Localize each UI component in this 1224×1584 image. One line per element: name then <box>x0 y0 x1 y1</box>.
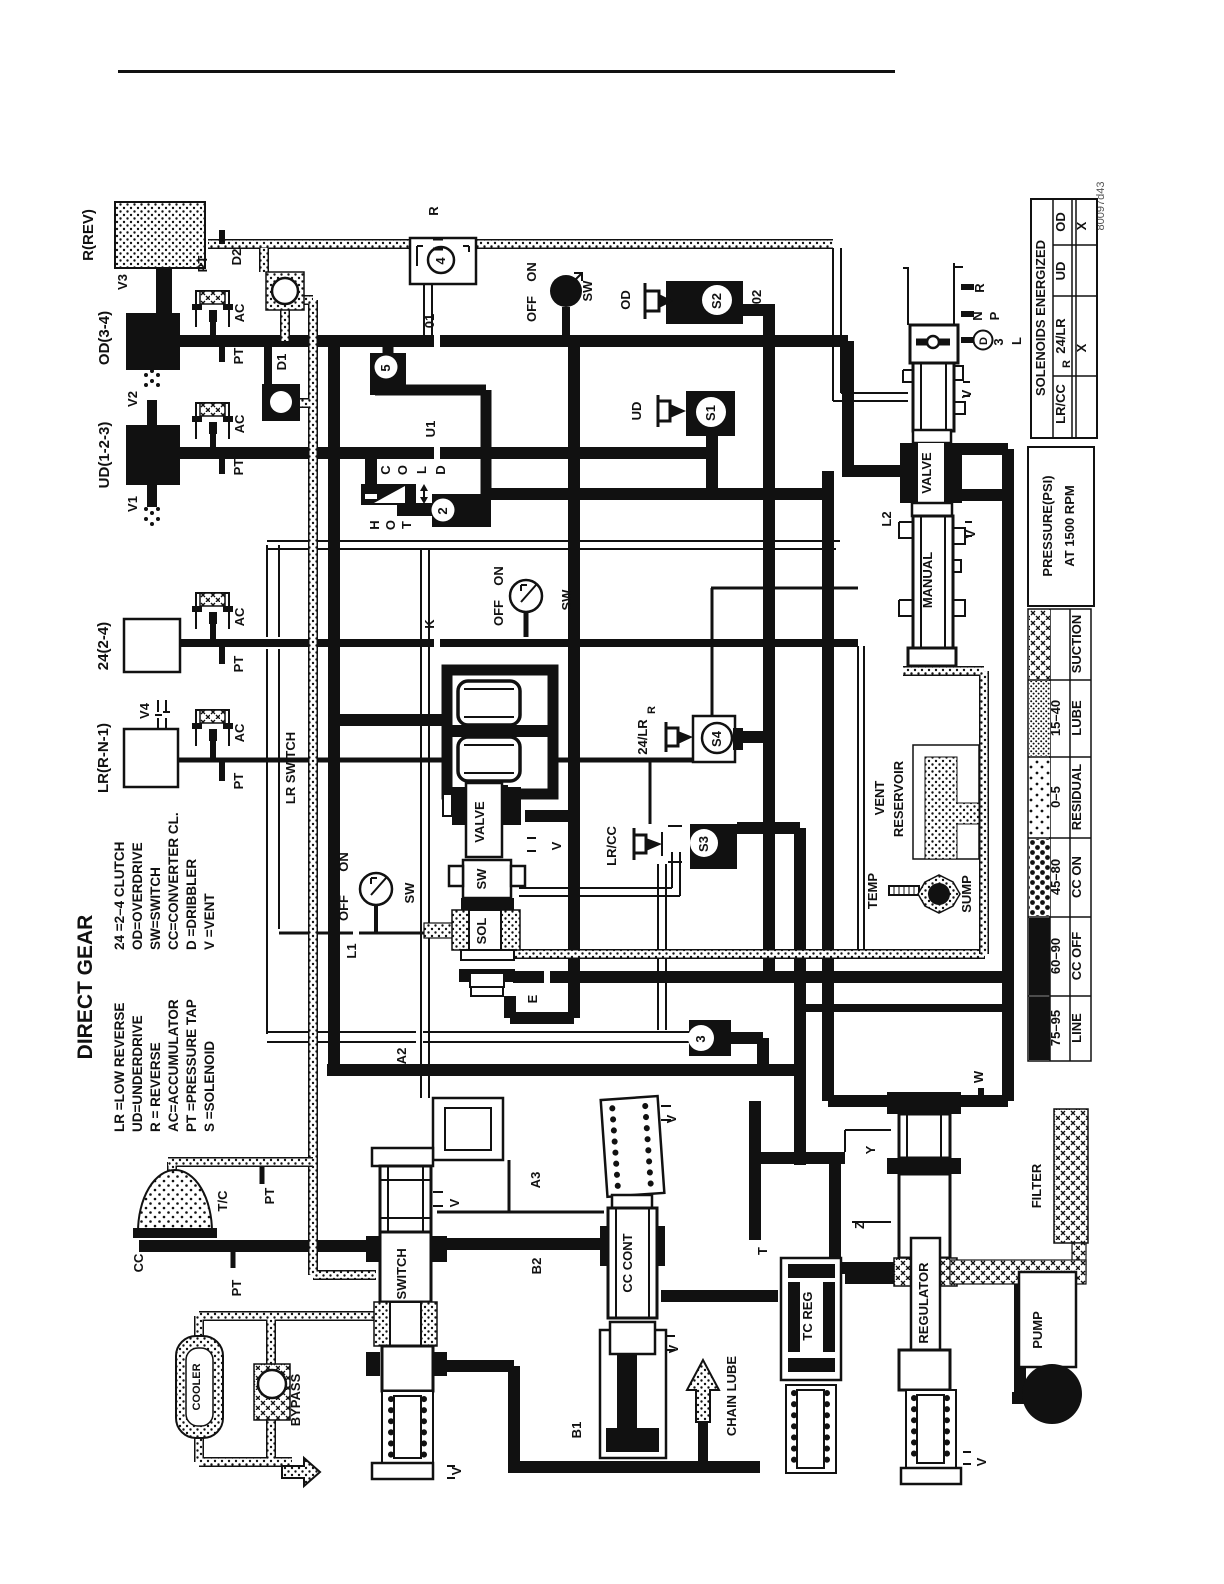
valve assembly bulb housing <box>447 670 553 794</box>
svg-text:N: N <box>970 311 985 320</box>
wire S4 feed <box>711 588 858 718</box>
wire cross link y1008 <box>804 1004 1008 1012</box>
gear indicator P R N D 3 L <box>961 287 974 340</box>
pressure tap PT (LR) <box>219 760 225 781</box>
wire pair below K <box>267 649 279 1034</box>
valve assembly bottom piston <box>459 969 515 982</box>
svg-text:R: R <box>426 206 441 216</box>
TC reg spring <box>786 1385 836 1473</box>
svg-text:UD(1-2-3): UD(1-2-3) <box>96 422 113 489</box>
regulator bottom cap <box>901 1468 961 1484</box>
pressure tap PT (OD) <box>219 341 225 362</box>
svg-text:MANUAL: MANUAL <box>920 552 935 608</box>
svg-text:AC: AC <box>232 303 247 322</box>
wire S3 funnel feed <box>649 762 652 824</box>
CC cont top spring box <box>601 1096 665 1197</box>
svg-text:SOLENOIDS ENERGIZED: SOLENOIDS ENERGIZED <box>1033 240 1048 396</box>
reservoir fill <box>925 757 979 859</box>
valve assembly mid band <box>452 725 548 737</box>
svg-text:PT: PT <box>231 348 246 365</box>
svg-text:AT 1500 RPM: AT 1500 RPM <box>1062 485 1077 566</box>
svg-text:CC ON: CC ON <box>1069 856 1084 898</box>
node U1 <box>434 445 440 461</box>
wire S2 box to riser <box>743 304 775 316</box>
thermal valve COLD/HOT <box>361 484 416 505</box>
CC switch bottom cap <box>372 1463 433 1479</box>
svg-text:D =DRIBBLER: D =DRIBBLER <box>184 859 199 950</box>
wire valve right to main riser y449 <box>962 449 1008 495</box>
valve assembly bulb 1 <box>458 681 520 725</box>
bypass <box>254 1364 290 1420</box>
wire pump riser <box>1012 1271 1040 1398</box>
svg-text:PT: PT <box>262 1188 277 1205</box>
svg-text:L: L <box>1009 337 1024 345</box>
svg-text:PT: PT <box>231 656 246 673</box>
accumulator AC (LR) <box>192 710 233 760</box>
pressure tap PT (CC line) <box>231 1248 236 1268</box>
svg-text:LINE: LINE <box>1069 1013 1084 1043</box>
svg-text:S =SOLENOID: S =SOLENOID <box>202 1041 217 1132</box>
table PRESSURE(PSI) AT 1500 RPM <box>1028 447 1094 606</box>
wire CC CONT right to TC REG <box>661 1290 778 1302</box>
wire x334 riser to valve assembly upper left <box>334 714 452 726</box>
wire T feed to TC REG <box>749 1101 761 1240</box>
svg-text:FILTER: FILTER <box>1029 1163 1044 1208</box>
node K <box>434 636 440 650</box>
svg-text:S1: S1 <box>703 405 718 421</box>
wire bottom loop <box>508 1366 760 1467</box>
svg-text:O: O <box>395 465 410 475</box>
wire W line upper <box>327 1064 804 1076</box>
svg-text:02: 02 <box>749 290 764 304</box>
wire OD clutch line <box>180 335 848 347</box>
svg-text:D: D <box>978 337 990 345</box>
svg-text:CHAIN LUBE: CHAIN LUBE <box>724 1356 739 1436</box>
svg-text:AC=ACCUMULATOR: AC=ACCUMULATOR <box>166 999 181 1132</box>
svg-text:AC: AC <box>232 414 247 433</box>
svg-text:PT: PT <box>229 1280 244 1297</box>
dribbler D2 <box>266 272 304 310</box>
svg-text:DIRECT GEAR: DIRECT GEAR <box>74 915 97 1060</box>
svg-text:PT =PRESSURE TAP: PT =PRESSURE TAP <box>184 999 199 1132</box>
svg-text:A3: A3 <box>528 1172 543 1189</box>
svg-text:B2: B2 <box>529 1258 544 1275</box>
filter <box>1054 1109 1088 1243</box>
node W <box>978 1088 984 1096</box>
wire CC line mid (B2) <box>437 1238 604 1250</box>
svg-text:OD: OD <box>618 290 633 310</box>
svg-text:D1: D1 <box>274 354 289 371</box>
svg-text:VENT: VENT <box>872 781 887 816</box>
wire Y thin marks <box>845 1130 891 1152</box>
wire funnel drain pair to A2 <box>658 864 666 1030</box>
svg-text:60–90: 60–90 <box>1048 938 1063 974</box>
switch SW (L1, open) <box>374 906 378 933</box>
svg-text:V1: V1 <box>125 496 140 512</box>
accumulator AC (UD) <box>192 403 233 453</box>
wire regulator out to pump line <box>845 1272 1019 1284</box>
svg-text:V4: V4 <box>137 702 152 719</box>
wire W line lower right <box>828 1095 1008 1107</box>
check valve 4 <box>410 238 476 284</box>
regulator hatch pockets <box>894 1258 912 1286</box>
wire x581 riser from OD line down into assembly <box>510 341 574 1018</box>
svg-text:K: K <box>422 619 437 629</box>
svg-text:V: V <box>449 1466 464 1475</box>
svg-text:LR SWITCH: LR SWITCH <box>283 732 298 804</box>
wire L1 line <box>279 932 454 935</box>
svg-text:V: V <box>974 1457 989 1466</box>
svg-text:COOLER: COOLER <box>191 1363 203 1410</box>
svg-text:VALVE: VALVE <box>919 452 934 494</box>
manual valve MANUAL spool <box>913 516 953 648</box>
svg-text:O: O <box>383 520 398 530</box>
svg-text:CC OFF: CC OFF <box>1069 932 1084 980</box>
node E <box>544 969 550 985</box>
vent V (manual) <box>965 522 972 536</box>
svg-text:V2: V2 <box>125 391 140 407</box>
wire D1 stub <box>264 341 272 384</box>
svg-text:T: T <box>755 1247 770 1255</box>
svg-text:E: E <box>525 994 540 1003</box>
svg-text:B1: B1 <box>569 1422 584 1439</box>
svg-text:CC: CC <box>131 1253 146 1272</box>
wire A2 pair <box>267 1032 689 1042</box>
wire S3 to x800 riser <box>737 822 800 834</box>
pump <box>1019 1272 1076 1367</box>
valve assembly neck <box>467 786 507 803</box>
regulator spring <box>906 1390 956 1468</box>
svg-text:24/LR: 24/LR <box>1053 318 1068 354</box>
svg-text:LR(R-N-1): LR(R-N-1) <box>95 723 112 793</box>
svg-text:CC CONT: CC CONT <box>620 1233 635 1292</box>
svg-text:H: H <box>367 520 382 529</box>
pressure tap PT (R line) <box>219 230 225 244</box>
svg-text:24/LR: 24/LR <box>635 719 650 755</box>
svg-text:4: 4 <box>433 257 448 265</box>
svg-text:01: 01 <box>422 314 437 328</box>
bypass arrow <box>282 1458 320 1486</box>
svg-text:PT: PT <box>231 773 246 790</box>
svg-text:RESIDUAL: RESIDUAL <box>1069 764 1084 831</box>
CC cont lower plunger <box>600 1330 666 1458</box>
wire Z thin marks <box>852 1221 891 1223</box>
svg-text:SW: SW <box>402 882 417 904</box>
svg-text:R(REV): R(REV) <box>80 209 97 261</box>
svg-text:L2: L2 <box>879 511 894 526</box>
svg-text:AC: AC <box>232 723 247 742</box>
svg-text:SUMP: SUMP <box>959 875 974 913</box>
solenoid S2 (OD) <box>666 281 743 324</box>
svg-text:V: V <box>664 1114 679 1123</box>
svg-text:PT: PT <box>195 256 210 273</box>
valve SW section <box>463 860 511 898</box>
reservoir outline <box>913 745 979 859</box>
svg-text:0–5: 0–5 <box>1048 786 1063 808</box>
check valve 3 <box>689 1020 731 1056</box>
svg-text:R: R <box>972 283 987 293</box>
svg-text:V3: V3 <box>115 274 130 290</box>
wire A1 riser pair <box>421 549 429 1098</box>
svg-text:ON: ON <box>491 566 506 586</box>
svg-text:P: P <box>987 311 1002 320</box>
wire R loop down <box>833 248 908 401</box>
manual valve bottom cap <box>908 648 956 666</box>
wire CC switch lower out <box>433 1360 514 1372</box>
svg-text:LR/CC: LR/CC <box>604 826 619 866</box>
svg-text:T: T <box>399 521 414 529</box>
wire K loop pair <box>267 541 840 637</box>
node 01 <box>434 333 440 349</box>
svg-text:V: V <box>666 1344 681 1353</box>
manual valve upper spool <box>913 363 954 431</box>
valve SOL section <box>461 898 514 910</box>
wire LR clutch line <box>178 758 693 763</box>
accumulator AC (24) <box>192 593 233 643</box>
valve assembly bulb 2 <box>458 737 520 781</box>
svg-text:UD=UNDERDRIVE: UD=UNDERDRIVE <box>130 1015 145 1132</box>
svg-text:A2: A2 <box>394 1048 409 1065</box>
svg-text:TEMP: TEMP <box>865 873 880 909</box>
wire x334 riser from OD line down to W <box>328 341 340 1064</box>
svg-text:VALVE: VALVE <box>472 801 487 843</box>
svg-text:OD: OD <box>1053 212 1068 232</box>
wire S4 to riser <box>742 731 769 743</box>
switch SW (K line, open) <box>524 612 529 637</box>
svg-text:TC REG: TC REG <box>800 1291 815 1340</box>
svg-text:OD=OVERDRIVE: OD=OVERDRIVE <box>130 842 145 950</box>
break ticks <box>975 1095 987 1109</box>
svg-text:V =VENT: V =VENT <box>202 893 217 950</box>
svg-text:UD: UD <box>1053 262 1068 281</box>
dribbler D1 <box>262 384 300 421</box>
svg-text:LR =LOW REVERSE: LR =LOW REVERSE <box>112 1003 127 1132</box>
svg-text:R: R <box>1061 360 1073 368</box>
svg-text:LR/CC: LR/CC <box>1053 384 1068 424</box>
wire E line <box>513 971 1008 983</box>
wire x828 riser <box>822 471 834 1101</box>
svg-text:2: 2 <box>435 507 450 514</box>
svg-text:PT: PT <box>231 459 246 476</box>
wire Z elbow into regulator <box>835 1158 894 1268</box>
svg-text:S3: S3 <box>696 836 711 852</box>
svg-text:X: X <box>1074 221 1089 230</box>
wire x800 riser down to Y line <box>794 828 806 1165</box>
node R <box>433 239 443 249</box>
wire U1 corner down <box>706 436 718 493</box>
svg-text:SW=SWITCH: SW=SWITCH <box>148 867 163 950</box>
pressure tap PT (24) <box>219 643 225 664</box>
svg-text:24(2-4): 24(2-4) <box>95 622 112 670</box>
svg-text:SW: SW <box>474 868 489 890</box>
wire manual valve top pair <box>903 263 963 325</box>
wire Y line <box>755 1152 845 1164</box>
svg-text:L1: L1 <box>344 943 359 958</box>
vent V (valve) <box>527 838 536 851</box>
svg-text:PRESSURE(PSI): PRESSURE(PSI) <box>1040 475 1055 576</box>
manual valve neck <box>913 430 951 443</box>
svg-text:REGULATOR: REGULATOR <box>916 1262 931 1344</box>
wire OD to thermal valve <box>365 453 377 489</box>
svg-text:CC=CONVERTER CL.: CC=CONVERTER CL. <box>166 812 181 950</box>
svg-text:RESERVOIR: RESERVOIR <box>891 760 906 837</box>
cooler <box>176 1336 223 1438</box>
svg-text:R = REVERSE: R = REVERSE <box>148 1042 163 1132</box>
svg-text:R: R <box>646 706 658 714</box>
wire solenoid riser x769 <box>763 313 775 977</box>
wire 4-box to OD line pair <box>424 284 432 336</box>
svg-text:15–40: 15–40 <box>1048 700 1063 736</box>
svg-text:BYPASS: BYPASS <box>288 1373 303 1426</box>
accumulator AC (OD) <box>192 291 233 341</box>
svg-text:OFF: OFF <box>336 895 351 921</box>
svg-text:SOL: SOL <box>474 918 489 945</box>
wire sump left edge pair <box>858 646 864 952</box>
svg-text:3: 3 <box>991 338 1006 345</box>
svg-text:5: 5 <box>378 364 393 371</box>
svg-text:V: V <box>447 1198 462 1207</box>
wire 24 clutch line <box>180 639 858 647</box>
svg-text:T/C: T/C <box>215 1190 230 1212</box>
gear lever box <box>910 325 958 363</box>
svg-text:AC: AC <box>232 607 247 626</box>
solenoid S3 (LR/CC) <box>690 824 737 869</box>
solenoid S4 (24/LR) <box>693 716 735 762</box>
svg-text:X: X <box>1074 343 1089 352</box>
svg-text:Y: Y <box>863 1145 878 1154</box>
svg-text:24 =2–4 CLUTCH: 24 =2–4 CLUTCH <box>112 842 127 950</box>
svg-text:U1: U1 <box>423 421 438 438</box>
torque converter T/C <box>138 1170 212 1232</box>
wire UD clutch line <box>180 447 712 459</box>
suction path <box>1072 1243 1086 1275</box>
svg-text:D: D <box>433 465 448 474</box>
svg-text:75–95: 75–95 <box>1048 1010 1063 1046</box>
solenoid S1 (UD) <box>686 391 735 436</box>
svg-text:W: W <box>971 1070 986 1083</box>
wire A3 line <box>437 1160 604 1212</box>
check valve 5 <box>370 353 406 395</box>
wire thermal output line y490 <box>486 488 832 500</box>
svg-text:V: V <box>963 529 978 538</box>
CC switch stipple pockets <box>374 1302 390 1346</box>
svg-text:S2: S2 <box>709 293 724 309</box>
svg-text:PUMP: PUMP <box>1030 1311 1045 1349</box>
svg-text:OD(3-4): OD(3-4) <box>96 311 113 365</box>
svg-text:LUBE: LUBE <box>1069 700 1084 736</box>
svg-text:D2: D2 <box>229 249 244 266</box>
svg-text:SW: SW <box>580 280 595 302</box>
wire 5-box L to UD line <box>383 341 394 356</box>
switch SW (OD, filled) <box>562 307 570 338</box>
top rule <box>118 70 895 73</box>
wire CC line left <box>139 1240 377 1252</box>
svg-text:Z: Z <box>852 1221 867 1229</box>
manual valve mid cap <box>912 503 952 516</box>
svg-text:S4: S4 <box>709 730 724 747</box>
svg-text:V: V <box>549 841 564 850</box>
table pressure legend <box>1028 609 1091 1061</box>
wire OD line corner to manual valve <box>842 341 903 471</box>
wire SW section to S3 area pair <box>519 852 680 896</box>
svg-text:C: C <box>378 465 393 475</box>
svg-text:SW: SW <box>559 589 574 611</box>
svg-text:3: 3 <box>693 1035 708 1042</box>
vent V (upper) <box>963 382 970 396</box>
svg-text:L: L <box>414 466 429 474</box>
valve VALVE block <box>900 443 918 503</box>
wire 3-box to riser <box>729 1038 763 1070</box>
svg-text:OFF: OFF <box>491 600 506 626</box>
pressure tap PT (TC line) <box>260 1166 265 1184</box>
svg-text:UD: UD <box>629 402 644 421</box>
svg-text:SUCTION: SUCTION <box>1069 615 1084 674</box>
wire A1 thin links <box>445 1120 503 1148</box>
pressure tap PT (UD) <box>219 453 225 474</box>
CC switch lower body <box>366 1352 380 1376</box>
wire main right riser x1008 <box>1002 449 1014 1101</box>
svg-text:OFF: OFF <box>524 296 539 322</box>
table SOLENOIDS ENERGIZED <box>1031 199 1097 438</box>
CC cont body <box>600 1226 612 1266</box>
CC switch spring <box>382 1391 433 1463</box>
svg-text:45–80: 45–80 <box>1048 859 1063 895</box>
svg-text:V: V <box>959 389 974 398</box>
svg-text:ON: ON <box>336 852 351 872</box>
valve VALVE section <box>466 783 502 857</box>
check valve 2 <box>432 494 491 527</box>
svg-text:ON: ON <box>524 262 539 282</box>
